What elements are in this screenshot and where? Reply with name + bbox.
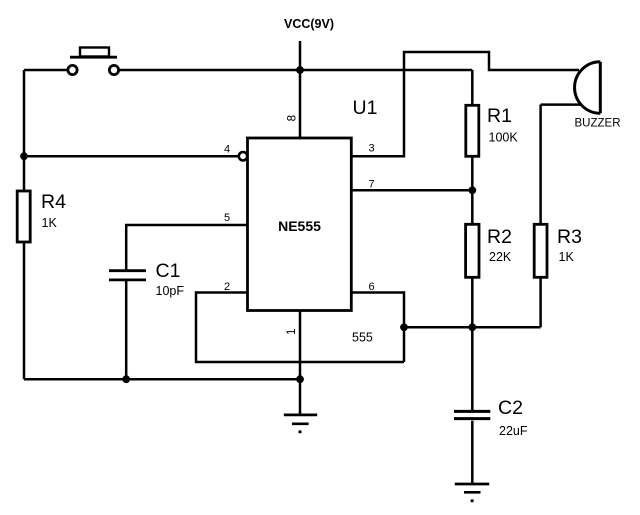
resistor R4 body [17,191,30,242]
svg-text:1K: 1K [559,250,575,264]
wire: buzzer bottom terminal wire [541,103,581,106]
pushbutton switch bar [70,56,117,59]
junction: pin1 on bottom rail [296,375,304,383]
svg-text:5: 5 [224,212,230,224]
svg-text:4: 4 [224,144,230,156]
wire: pin 2 trigger loop left-down-right [196,293,404,363]
wire: R1 top lead from VCC rail [471,70,474,105]
wire: R4 bottom lead down to bottom rail corner [23,242,26,379]
wire: C1 bottom lead to bottom rail [125,281,128,379]
wire: pin 1 stem down to bottom rail [299,311,302,380]
resistor R2 body [466,224,479,277]
wire: C2 top lead [471,327,474,411]
svg-text:6: 6 [369,281,375,293]
buzzer BZ1 symbol [575,62,601,114]
svg-text:10pF: 10pF [156,284,185,298]
svg-text:R3: R3 [557,226,582,248]
junction: pin 4 tee on left vertical [20,152,28,160]
wire: top-left rail from left corner to switch left contact [24,69,68,72]
ground symbol under C2 [455,484,489,501]
svg-text:C1: C1 [156,260,181,282]
svg-text:NE555: NE555 [278,218,321,234]
wire: pin 6 threshold right and down [351,293,404,363]
wire: R2 bottom lead to node rail [471,277,474,327]
svg-text:R2: R2 [487,226,512,248]
pushbutton switch right contact [109,65,118,74]
svg-text:C2: C2 [498,397,523,419]
capacitor C1 bottom plate [109,278,146,281]
wire: C2 bottom lead to ground [471,421,474,484]
wire: pin 7 discharge to R1/R2 node [351,189,472,192]
junction: pin6 loop node [400,323,408,331]
wire: bottom rail from left corner to pin1 junction [24,378,300,381]
wire: node rail from pin6 vertical to R3 bottom [404,326,541,329]
resistor R1 body [466,105,479,156]
wire: R3 bottom lead [539,277,542,327]
junction: VCC rail node [296,66,304,74]
wire: pin 3 output route up and over to buzzer [351,52,579,156]
svg-text:22uF: 22uF [499,424,528,438]
svg-text:8: 8 [287,115,299,121]
pushbutton switch cap [80,48,109,57]
svg-text:R1: R1 [487,105,512,127]
junction: C1 on bottom rail [122,375,130,383]
svg-text:BUZZER: BUZZER [575,118,621,130]
wire: left vertical from top rail down to R4 top [23,70,26,191]
capacitor C2 bottom plate [454,417,490,420]
pushbutton switch left contact [68,65,77,74]
resistor R3 body [534,224,547,277]
svg-text:U1: U1 [353,97,378,119]
wire: ground stem under pin 1 [299,379,302,415]
svg-text:100K: 100K [489,131,519,145]
capacitor C1 top plate [109,269,146,272]
svg-text:555: 555 [352,331,373,345]
wire: pin 4 reset wire from left vertical to pin4 circle [24,155,239,158]
svg-text:VCC(9V): VCC(9V) [284,17,334,31]
svg-text:7: 7 [369,179,375,191]
junction: R2/C2 node [468,323,476,331]
ground symbol under pin 1 [284,415,317,432]
pin 4 inversion circle [239,152,247,160]
svg-text:22K: 22K [489,250,512,264]
svg-text:1K: 1K [42,216,58,230]
capacitor C2 top plate [454,410,490,413]
wire: VCC stem down to pin 8 of U1 [299,41,302,138]
wire: top rail from switch right contact to R1 corner [119,69,473,72]
wire: R3 top lead up to buzzer corner [539,105,542,225]
svg-text:1: 1 [286,329,298,335]
op-amp U1 NE555 body [248,138,352,311]
wire: pin 5 wire from U1 left to C1 top [126,225,247,270]
junction: pin7/R1/R2 node [468,186,476,194]
svg-text:3: 3 [369,143,375,155]
svg-text:R4: R4 [41,191,66,213]
svg-text:2: 2 [224,281,230,293]
wire: R1 bottom lead to R2 top [471,156,474,224]
